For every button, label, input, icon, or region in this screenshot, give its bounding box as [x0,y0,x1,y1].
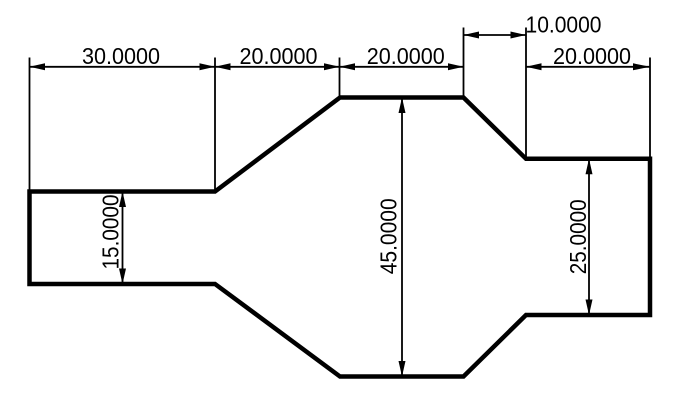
svg-text:25.0000: 25.0000 [565,199,591,274]
svg-text:20.0000: 20.0000 [553,43,631,69]
svg-text:15.0000: 15.0000 [97,195,123,270]
svg-text:20.0000: 20.0000 [240,43,318,69]
svg-text:45.0000: 45.0000 [376,198,402,274]
svg-text:20.0000: 20.0000 [367,43,445,69]
svg-text:10.0000: 10.0000 [526,11,602,37]
svg-text:30.0000: 30.0000 [82,43,160,69]
